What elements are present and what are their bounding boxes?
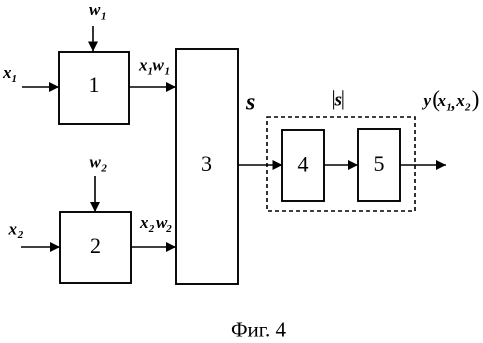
- svg-text:x: x: [138, 56, 148, 75]
- svg-text:|: |: [341, 86, 345, 110]
- svg-text:5: 5: [374, 151, 385, 176]
- svg-text:w: w: [89, 0, 101, 19]
- svg-text:): ): [472, 87, 480, 112]
- svg-text:2: 2: [165, 223, 172, 235]
- svg-text:2: 2: [90, 233, 101, 258]
- svg-text:3: 3: [201, 151, 212, 176]
- svg-text:1: 1: [165, 66, 171, 78]
- svg-text:y: y: [422, 91, 432, 110]
- svg-text:w: w: [153, 56, 165, 75]
- svg-text:2: 2: [148, 223, 155, 235]
- svg-text:2: 2: [100, 163, 107, 175]
- svg-text:x: x: [139, 213, 149, 232]
- svg-text:w: w: [90, 153, 102, 172]
- svg-text:x: x: [8, 220, 18, 239]
- svg-text:1: 1: [12, 73, 18, 85]
- svg-text:1: 1: [89, 72, 100, 97]
- svg-text:2: 2: [17, 229, 24, 241]
- svg-text:x: x: [455, 91, 465, 110]
- svg-text:2: 2: [464, 102, 471, 114]
- svg-text:x: x: [2, 63, 12, 82]
- svg-text:s: s: [245, 90, 255, 116]
- svg-text:1: 1: [101, 11, 107, 23]
- svg-text:4: 4: [298, 152, 309, 177]
- svg-text:,: ,: [451, 94, 456, 113]
- svg-text:Фиг. 4: Фиг. 4: [231, 318, 287, 342]
- svg-text:x: x: [437, 91, 447, 110]
